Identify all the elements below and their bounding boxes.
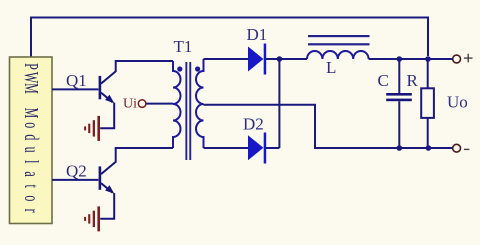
diode D1 [248,47,263,72]
transformer T1 secondary winding [196,59,203,148]
emitter arrow Q2 [105,185,114,193]
svg-text:Q2: Q2 [66,162,87,181]
transistor Q1 [99,71,116,128]
emitter arrow Q1 [105,95,114,103]
phase dot secondary [195,66,200,71]
wire secondary bottom to D2 [204,147,249,149]
output terminal - [453,144,461,152]
svg-text:D2: D2 [243,115,264,134]
node C top [397,56,403,62]
svg-text:R: R [407,71,419,90]
wire D2 cathode stub [266,147,279,149]
node R top / feedback [425,56,431,62]
plus sign [464,54,473,63]
PWM Modulator block U? [10,57,53,224]
transformer T1 primary winding [173,61,181,148]
node R bottom [426,145,432,151]
label PWM Modulator (rotated) [20,63,43,213]
svg-text:Ui: Ui [123,97,137,112]
svg-text:M: M [20,83,43,94]
svg-text:Q1: Q1 [66,71,87,90]
capacitor C [398,59,400,93]
phase dot primary [177,66,182,71]
svg-text:r: r [20,209,43,213]
svg-text:a: a [20,171,43,177]
wire secondary center tap to output return [204,105,453,148]
ground (Q1 emitter) [84,116,100,141]
svg-text:L: L [326,58,336,77]
svg-text:u: u [20,147,43,153]
wire Q1 base from PWM [52,88,98,90]
svg-text:d: d [20,134,43,141]
transistor Q2 [99,162,116,219]
minus sign [464,148,470,150]
svg-text:Uo: Uo [447,93,468,112]
inductor L core [308,35,370,37]
resistor R [427,59,429,88]
wire junction down to D2 cathode [278,59,280,148]
svg-text:W: W [20,72,43,84]
wire secondary top to D1 [204,58,249,60]
svg-text:D1: D1 [247,25,268,44]
svg-text:T1: T1 [174,37,193,56]
output terminal + [453,55,461,63]
input terminal Ui [138,100,146,108]
svg-text:P: P [20,63,43,70]
wire feedback from output to PWM modulator top [31,18,428,58]
wire Ui to T1 primary center tap [146,103,173,105]
wire Q2 base from PWM [52,179,98,181]
inductor L winding [307,51,369,59]
wire D1 cathode to node [266,58,307,60]
node D1/D2 junction [277,56,283,62]
diode D2 [248,135,263,160]
transformer core [185,62,187,160]
svg-text:C: C [378,71,389,90]
svg-text:t: t [20,185,43,189]
wire L to + output [369,58,453,60]
wire Q2 collector to T1 primary bottom [116,148,173,163]
ground (Q2 emitter) [84,206,100,231]
svg-text:l: l [20,160,43,164]
svg-text:o: o [20,122,43,128]
svg-text:o: o [20,195,43,201]
node C bottom [397,145,403,151]
svg-text:M: M [20,108,43,119]
wire Q1 collector to T1 primary top [116,61,173,72]
